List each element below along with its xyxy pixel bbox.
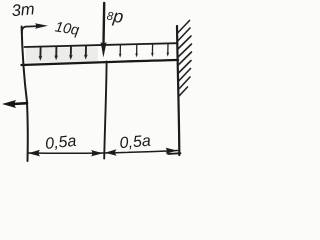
- svg-text:3m: 3m: [11, 0, 35, 20]
- left column: [22, 27, 28, 162]
- force arrow 8p: [101, 3, 107, 58]
- svg-text:0,5a: 0,5a: [119, 133, 152, 153]
- beam: top line of load band: [25, 43, 178, 47]
- svg-text:0,5a: 0,5a: [44, 133, 77, 153]
- dimension line: [28, 151, 178, 154]
- top arrow at head of left column: [22, 23, 48, 33]
- left horizontal force arrow: [2, 100, 27, 108]
- beam: bottom line of load band: [22, 60, 179, 65]
- wall support line: [177, 26, 179, 155]
- light pencil shading in load band: [26, 48, 98, 63]
- dim arrow middle right (points left): [105, 149, 117, 156]
- dim arrow left end (points left): [28, 150, 40, 157]
- dim arrow middle left (points right): [91, 150, 103, 156]
- middle column: [104, 62, 106, 159]
- wall hatching: [178, 21, 192, 97]
- wall foot: [168, 152, 181, 155]
- dim arrow right end (points right): [166, 148, 178, 154]
